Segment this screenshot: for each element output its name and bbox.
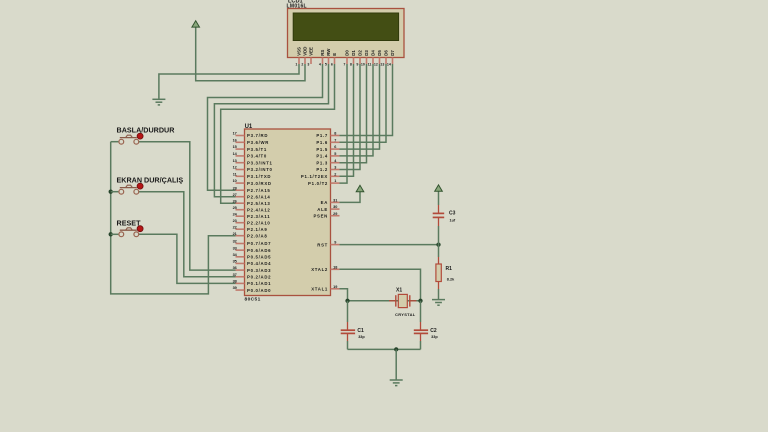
pin 18 XTAL2 [331,268,340,270]
svg-text:19: 19 [333,285,337,289]
svg-text:C1: C1 [357,328,364,334]
LCD pin 4 RS [322,58,324,65]
pin 10 P3.0/RXD [236,182,245,184]
wire VDD to +5V arrow [196,27,305,81]
capacitor C3 [433,212,445,214]
wire RST net [340,244,439,246]
pin 16 P3.6/WR [236,141,245,143]
LCD pin 5 RW [328,58,330,65]
svg-text:26: 26 [233,199,237,203]
svg-text:VEE: VEE [308,47,313,56]
power +5V arrow (C3) [435,185,443,191]
wire LCD D5 to U1 P1.5 [340,64,380,149]
wire LCD RS to U1 P2.7 [208,64,323,190]
pin 4 P1.3 [331,162,340,164]
pin 30 ALE [331,208,340,210]
svg-text:P2.6/A14: P2.6/A14 [247,194,271,199]
capacitor C1 [341,329,355,331]
pin 28 P2.7/A15 [236,189,245,191]
LCD pin 6 E [334,58,336,65]
svg-text:D2: D2 [357,50,362,56]
pin 24 P2.3/A11 [236,215,245,217]
pin 15 P3.5/T1 [236,148,245,150]
svg-text:38: 38 [233,280,237,284]
svg-text:PSEN: PSEN [313,213,328,218]
pin 27 P2.6/A14 [236,196,245,198]
pin 22 P2.1/A9 [236,228,245,230]
svg-text:13: 13 [380,62,384,66]
pin 34 P0.5/AD5 [236,256,245,258]
pin 12 P3.2/INT0 [236,169,245,171]
svg-text:BASLA/DURDUR: BASLA/DURDUR [117,126,176,135]
svg-text:25: 25 [233,206,237,210]
svg-text:9: 9 [334,241,336,245]
svg-text:P0.1/AD1: P0.1/AD1 [247,281,271,286]
pin 17 P3.7/RD [236,135,245,137]
wire XTAL1 net [340,289,348,301]
svg-text:33p: 33p [431,335,438,339]
svg-text:ALE: ALE [317,207,328,212]
pin 38 P0.1/AD1 [236,282,245,284]
svg-text:11: 11 [368,62,372,66]
MCU U1 80C51 body [245,129,331,296]
svg-text:EKRAN DUR/ÇALIŞ: EKRAN DUR/ÇALIŞ [117,176,184,185]
svg-text:P0.4/AD4: P0.4/AD4 [247,261,271,266]
LCD pin 7 D0 [346,58,348,65]
pin 6 P1.5 [331,148,340,150]
svg-text:R1: R1 [446,266,453,272]
svg-text:P2.1/A9: P2.1/A9 [247,227,267,232]
capacitor C2 [414,329,428,331]
wire XTAL2 net [340,269,421,301]
svg-text:P3.7/RD: P3.7/RD [247,133,268,138]
svg-text:7: 7 [334,138,336,142]
svg-text:D6: D6 [383,50,388,56]
pin 21 P2.0/A8 [236,235,245,237]
svg-text:P1.4: P1.4 [316,154,328,159]
svg-text:32: 32 [233,240,237,244]
svg-text:P3.1/TXD: P3.1/TXD [247,174,271,179]
svg-text:12: 12 [374,62,378,66]
svg-text:28: 28 [233,186,237,190]
svg-text:P0.7/AD7: P0.7/AD7 [247,241,271,246]
svg-text:16: 16 [233,138,237,142]
svg-text:80C51: 80C51 [245,296,261,302]
LCD pin 9 D2 [359,58,361,65]
node ground junction [394,347,398,351]
LCD pin 10 D3 [366,58,368,65]
svg-text:12: 12 [233,166,237,170]
svg-text:P0.5/AD5: P0.5/AD5 [247,255,271,260]
pin 13 P3.3/INT1 [236,162,245,164]
svg-text:14: 14 [387,62,391,66]
svg-text:P2.0/A8: P2.0/A8 [247,233,267,238]
wire LCD D4 to U1 P1.4 [340,64,374,156]
svg-text:37: 37 [233,273,237,277]
pin 8 P1.7 [331,135,340,137]
svg-text:E: E [332,53,337,56]
svg-text:EA: EA [321,200,328,205]
svg-text:33: 33 [233,246,237,250]
svg-text:30: 30 [333,205,337,209]
pin 23 P2.2/A10 [236,222,245,224]
svg-text:29: 29 [333,212,337,216]
svg-text:P1.3: P1.3 [316,160,328,165]
svg-text:D0: D0 [344,50,349,56]
wire +5V arrow to C3 [438,191,440,205]
pin 29 PSEN [331,215,340,217]
svg-text:P1.6: P1.6 [316,140,328,145]
svg-text:18: 18 [333,265,337,269]
svg-text:P3.6/WR: P3.6/WR [247,140,269,145]
power +5V arrow (VDD) [192,21,200,27]
wire LCD D7 to U1 P1.7 [340,64,393,136]
wire LCD D6 to U1 P1.6 [340,64,387,142]
pin 36 P0.3/AD3 [236,269,245,271]
wire C2 branch [420,301,422,322]
wire button rail (common) [111,142,236,294]
pin 7 P1.6 [331,141,340,143]
svg-text:23: 23 [233,219,237,223]
svg-text:P1.7: P1.7 [316,133,328,138]
svg-text:P3.5/T1: P3.5/T1 [247,147,267,152]
wire bottom rail C1-C2 [348,348,421,350]
svg-text:D5: D5 [377,50,382,56]
svg-text:C3: C3 [449,210,456,216]
pin 2 P1.1/T2EX [331,175,340,177]
svg-text:P2.7/A15: P2.7/A15 [247,188,271,193]
svg-text:P0.6/AD6: P0.6/AD6 [247,248,271,253]
svg-text:P2.2/A10: P2.2/A10 [247,220,271,225]
ground (crystal) [390,379,403,381]
wire EA to +5V arrow [340,192,361,203]
wire RST node to R1 [438,245,440,257]
svg-text:35: 35 [233,260,237,264]
svg-text:39: 39 [233,286,237,290]
pin 19 XTAL1 [331,288,340,290]
svg-text:2: 2 [334,172,336,176]
pin 11 P3.1/TXD [236,175,245,177]
svg-text:P0.2/AD2: P0.2/AD2 [247,274,271,279]
resistor R1 [436,264,441,282]
svg-text:1: 1 [295,62,297,66]
pin 1 P1.0/T2 [331,182,340,184]
svg-text:33p: 33p [358,335,365,339]
svg-text:P3.2/INT0: P3.2/INT0 [247,167,273,172]
wire to ground [395,349,397,379]
svg-text:10: 10 [233,179,237,183]
svg-text:P0.0/AD0: P0.0/AD0 [247,288,271,293]
power +5V arrow (EA) [356,185,364,191]
wire RESET to P0.1 [139,234,236,283]
svg-text:36: 36 [233,266,237,270]
wire VSS to ground [159,64,299,99]
ground (R1) [432,299,445,301]
svg-text:X1: X1 [396,287,402,293]
pin 9 RST [331,244,340,246]
LCD pin 3 VEE [310,58,312,65]
wire C1 branch [347,301,349,322]
wire LCD E to U1 P2.5 [221,64,335,203]
svg-text:P1.1/T2EX: P1.1/T2EX [301,174,328,179]
svg-text:P2.5/A13: P2.5/A13 [247,201,271,206]
svg-text:RST: RST [317,242,328,247]
pin 35 P0.4/AD4 [236,262,245,264]
svg-text:15: 15 [233,145,237,149]
pin 31 EA [331,201,340,203]
wire crystal horizontal [348,300,421,302]
svg-text:P0.3/AD3: P0.3/AD3 [247,268,271,273]
svg-text:D3: D3 [364,50,369,56]
svg-text:2: 2 [301,62,303,66]
LCD pin 2 VDD [304,58,306,65]
wire R1 to ground [438,282,440,290]
svg-text:3: 3 [307,62,309,66]
svg-text:11: 11 [233,172,237,176]
LCD pin 12 D5 [379,58,381,65]
svg-text:D4: D4 [370,50,375,56]
svg-text:VDD: VDD [302,47,307,56]
svg-text:5: 5 [325,62,327,66]
LCD pin 13 D6 [385,58,387,65]
LCD pin 11 D4 [372,58,374,65]
svg-text:1: 1 [334,179,336,183]
svg-text:8: 8 [350,62,352,66]
svg-text:XTAL2: XTAL2 [311,267,328,272]
node XTAL2/C2 [418,299,422,303]
svg-text:RS: RS [320,50,325,56]
svg-text:VSS: VSS [296,47,301,56]
LCD screen [293,13,398,41]
pin 33 P0.6/AD6 [236,249,245,251]
ground (LCD VSS) [152,98,165,100]
svg-text:7: 7 [343,62,345,66]
svg-text:9: 9 [356,62,358,66]
LCD pin 14 D7 [392,58,394,65]
svg-text:P3.0/RXD: P3.0/RXD [247,181,272,186]
svg-text:31: 31 [333,199,337,203]
svg-text:5: 5 [334,152,336,156]
pin 25 P2.4/A12 [236,209,245,211]
svg-text:6: 6 [331,62,333,66]
node rail-RESET [109,232,113,236]
wire LCD D1 to U1 P1.1 [340,64,354,176]
pin 5 P1.4 [331,155,340,157]
svg-text:P2.3/A11: P2.3/A11 [247,214,270,219]
svg-text:RW: RW [326,48,331,56]
wire LCD D0 to U1 P1.0 [340,64,348,183]
wire LCD RW to U1 P2.6 [214,64,328,197]
svg-text:17: 17 [233,132,237,136]
wire BASLA/DURDUR to P0.3 [139,142,236,270]
pin 3 P1.2 [331,169,340,171]
pin 14 P3.4/T0 [236,155,245,157]
svg-text:21: 21 [233,232,237,236]
svg-text:P1.0/T2: P1.0/T2 [308,181,328,186]
pin 26 P2.5/A13 [236,202,245,204]
wire LCD D2 to U1 P1.2 [340,64,361,170]
svg-text:6: 6 [334,145,336,149]
svg-text:1uf: 1uf [450,218,456,222]
LCD LM016L body [288,9,405,58]
svg-text:27: 27 [233,193,237,197]
pin 37 P0.2/AD2 [236,276,245,278]
wire LCD D3 to U1 P1.3 [340,64,367,163]
node rail-EKRAN [109,190,113,194]
svg-text:P1.5: P1.5 [316,147,328,152]
svg-text:3: 3 [334,166,336,170]
svg-text:13: 13 [233,159,237,163]
svg-text:XTAL1: XTAL1 [311,287,328,292]
LCD pin 8 D1 [353,58,355,65]
wire EKRAN to P0.2 [139,192,236,277]
LCD pin 1 VSS [298,58,300,65]
wire C3 to RST node [438,218,440,227]
svg-text:P3.3/INT1: P3.3/INT1 [247,160,273,165]
svg-text:10: 10 [361,62,365,66]
pin 32 P0.7/AD7 [236,243,245,245]
svg-text:22: 22 [233,225,237,229]
svg-text:4: 4 [319,62,321,66]
node XTAL1/C1 [345,299,349,303]
svg-text:C2: C2 [430,328,437,334]
svg-text:8.2k: 8.2k [447,277,455,281]
svg-text:P3.4/T0: P3.4/T0 [247,154,267,159]
svg-text:RESET: RESET [117,218,142,227]
pin 39 P0.0/AD0 [236,289,245,291]
svg-text:D1: D1 [351,50,356,56]
svg-text:P2.4/A12: P2.4/A12 [247,207,271,212]
svg-text:P1.2: P1.2 [316,167,328,172]
svg-text:CRYSTAL: CRYSTAL [395,312,416,317]
node RST junction [436,242,440,246]
svg-text:8: 8 [334,132,336,136]
svg-text:D7: D7 [390,50,395,56]
